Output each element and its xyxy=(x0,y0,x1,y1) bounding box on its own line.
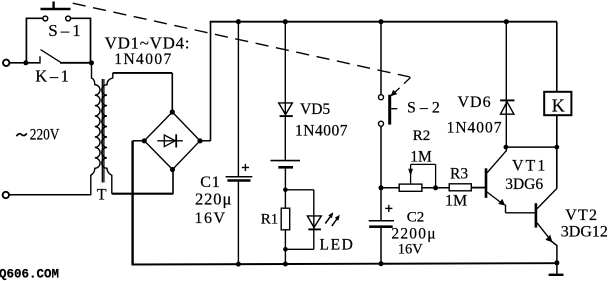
svg-text:1M: 1M xyxy=(410,148,432,165)
svg-text:VT1: VT1 xyxy=(512,158,547,175)
svg-text:T: T xyxy=(97,187,107,204)
svg-text:R2: R2 xyxy=(413,128,431,144)
svg-text:1M: 1M xyxy=(445,193,467,210)
svg-text:220V: 220V xyxy=(30,126,60,143)
svg-text:220μ: 220μ xyxy=(195,190,232,209)
svg-text:VD1~VD4:: VD1~VD4: xyxy=(105,34,191,53)
svg-text:S–1: S–1 xyxy=(48,21,83,40)
svg-text:VD6: VD6 xyxy=(458,94,492,111)
svg-text:1N4007: 1N4007 xyxy=(295,122,348,139)
svg-text:Q606.COM: Q606.COM xyxy=(0,268,59,281)
svg-text:16V: 16V xyxy=(398,242,424,258)
svg-text:VT2: VT2 xyxy=(565,207,598,224)
svg-text:K: K xyxy=(552,96,565,116)
svg-text:C1: C1 xyxy=(200,174,220,191)
svg-text:R3: R3 xyxy=(450,165,468,182)
svg-text:3DG12: 3DG12 xyxy=(561,224,608,241)
svg-text:S–2: S–2 xyxy=(407,99,444,116)
svg-text:VD5: VD5 xyxy=(300,101,330,118)
svg-text:C2: C2 xyxy=(407,210,425,226)
svg-text:1N4007: 1N4007 xyxy=(114,51,172,68)
svg-text:LED: LED xyxy=(320,236,355,253)
svg-text:R1: R1 xyxy=(261,211,279,227)
svg-text:K–1: K–1 xyxy=(35,67,71,86)
svg-text:16V: 16V xyxy=(195,210,227,227)
svg-text:3DG6: 3DG6 xyxy=(505,176,543,193)
svg-text:1N4007: 1N4007 xyxy=(447,119,503,136)
svg-text:2200μ: 2200μ xyxy=(391,225,436,242)
